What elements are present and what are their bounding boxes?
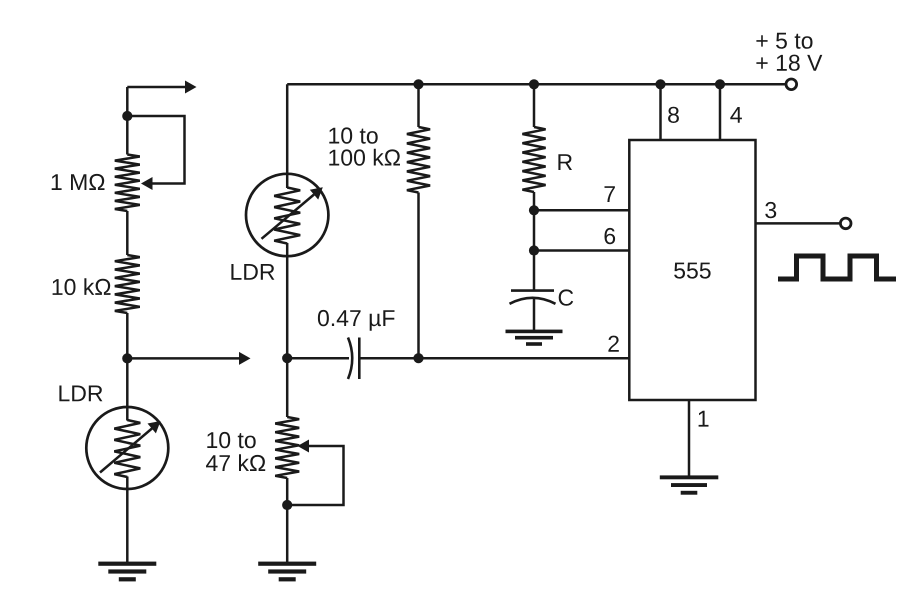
wire: [126, 477, 129, 564]
wire: [417, 193, 420, 359]
pin label 2: [608, 336, 618, 352]
node: trigger node junction: [282, 353, 292, 363]
photoresistor LDR2 circle: [246, 174, 328, 256]
wire: trigger node right segment to pin 2: [359, 357, 629, 360]
label: R: [558, 154, 572, 170]
node: rail junction at R: [529, 79, 539, 89]
terminal: output: [840, 218, 851, 229]
label: 10 kohm: [53, 278, 111, 295]
label: LDR (middle): [231, 264, 274, 280]
wire: [286, 478, 289, 563]
node: junction on trigger line: [413, 353, 423, 363]
node: rail junction pin 8: [655, 79, 665, 89]
potentiometer 10 to 47 kohm: [275, 417, 299, 478]
IC U1 555 timer body: [629, 140, 755, 400]
wire: [417, 84, 420, 127]
wire: pin 7 connection: [534, 209, 629, 212]
photoresistor LDR1 element: [114, 420, 140, 477]
photoresistor LDR2 element: [274, 188, 300, 244]
label: LDR (left): [59, 386, 102, 402]
label: 10 to 100 kohm: [329, 127, 400, 165]
photoresistor LDR1 circle: [86, 407, 168, 489]
label: C: [559, 289, 574, 305]
photoresistor LDR1 variable arrow: [100, 421, 161, 473]
wire: middle branch from rail: [286, 84, 289, 188]
capacitor C: [510, 291, 556, 304]
wire: pin 6 connection: [534, 249, 629, 252]
node: rail junction at 10-100k resistor: [413, 79, 423, 89]
wire: output arrow to next stage: [127, 352, 250, 365]
wire: [126, 313, 129, 421]
resistor R: [522, 127, 545, 192]
photoresistor LDR2 variable arrow: [262, 187, 323, 239]
node: junction at top of 1 M pot: [122, 111, 132, 121]
capacitor 0.47 uF: [348, 338, 359, 380]
pin label 4: [730, 107, 742, 123]
node: junction pin 7: [529, 205, 539, 215]
wire: +V supply rail: [287, 83, 785, 86]
wire: pot wiper feedback loop: [287, 440, 343, 506]
node: rail junction pin 4: [715, 79, 725, 89]
wire: pot wiper output with arrow (top left): [127, 81, 196, 155]
wire: pin 8: [659, 84, 662, 140]
wire: [533, 84, 536, 127]
pin label 1: [699, 411, 709, 427]
wire: trigger node left segment: [287, 357, 349, 360]
pin label 8: [668, 107, 679, 123]
wire: [126, 211, 129, 255]
node: junction pin 6: [529, 245, 539, 255]
pin label 7: [605, 186, 615, 202]
pin label 3: [765, 202, 776, 218]
resistor 10 to 100 kohm: [407, 127, 430, 193]
terminal: supply input: [786, 79, 797, 90]
wire: pin 3 output: [756, 222, 840, 225]
wire: [533, 298, 536, 331]
node: junction below pot: [282, 500, 292, 510]
label: 10 to 47 kohm: [206, 432, 265, 471]
label: 555: [674, 263, 711, 279]
wire: [533, 192, 536, 290]
node: divider tap junction: [122, 353, 132, 363]
wire: pin 1 to ground: [688, 400, 691, 477]
wire: [286, 243, 289, 417]
wire: pin 4: [719, 84, 722, 140]
label: supply voltage +5 to +18 V: [756, 33, 822, 71]
ground (middle branch): [258, 562, 316, 582]
waveform: square wave output symbol: [778, 256, 896, 279]
ground (left divider): [98, 562, 156, 582]
wire: feedback loop to 1 M pot wiper: [127, 116, 184, 190]
label: 1 Mohm: [52, 174, 105, 190]
potentiometer 1 Mohm: [115, 155, 140, 212]
ground (timing capacitor): [506, 330, 563, 346]
label: 0.47 uF: [318, 310, 395, 331]
pin label 6: [605, 228, 616, 244]
resistor 10 kohm: [115, 255, 140, 313]
ground (555 pin 1): [660, 475, 719, 494]
